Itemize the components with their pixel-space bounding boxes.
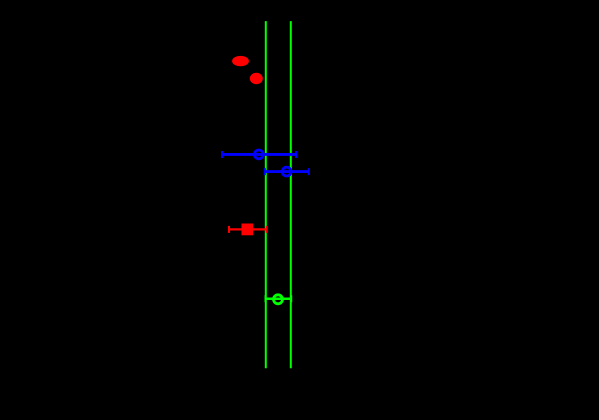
red filled ellipse point 2 [250,73,263,84]
red errorbar with square marker [229,226,267,233]
blue errorbar 1 [222,150,296,159]
blue errorbar 2 [265,167,309,176]
green vertical line right [290,21,292,368]
green errorbar with open circle marker [266,295,292,304]
red square marker [242,224,254,236]
red filled ellipse point 1 [232,56,249,66]
green vertical line left [265,21,267,368]
